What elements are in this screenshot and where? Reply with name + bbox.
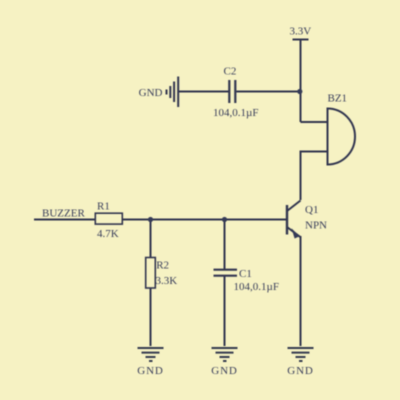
ground (C1) [212, 348, 238, 361]
junction node at 3.3V / C2 [297, 89, 302, 94]
wire R2 top [150, 220, 152, 258]
ground symbol rotated (left of C2) [167, 77, 179, 108]
svg-text:C2: C2 [224, 66, 237, 78]
svg-text:GND: GND [287, 365, 314, 377]
junction node R1 / R2 [148, 217, 153, 222]
resistor R1 body [95, 213, 122, 224]
wire emitter down [300, 236, 302, 346]
transistor Q1 emitter diagonal [287, 227, 300, 237]
wire BUZZER input [34, 219, 95, 221]
wire R2 bottom [150, 288, 152, 346]
wire C2 left segment [179, 91, 229, 93]
wire R1 to base [123, 219, 288, 221]
svg-text:NPN: NPN [305, 220, 327, 232]
wire C1 bottom [224, 277, 226, 347]
ground (Q1 emitter) [288, 348, 314, 361]
wire buzzer bottom lead to collector [301, 152, 328, 201]
wire buzzer top lead [301, 121, 328, 123]
svg-text:4.7K: 4.7K [97, 228, 119, 240]
junction node C1 / base wire [222, 217, 227, 222]
svg-text:104,0.1µF: 104,0.1µF [213, 107, 258, 119]
capacitor C1 plates [214, 270, 238, 276]
wire C2 right segment [236, 91, 300, 93]
svg-text:GND: GND [137, 365, 164, 377]
transistor Q1 base bar [286, 205, 288, 235]
resistor R2 body [146, 258, 156, 289]
svg-text:R1: R1 [97, 201, 110, 213]
wire 3.3V rail vertical [300, 40, 302, 123]
svg-text:Q1: Q1 [305, 204, 318, 216]
wire C1 top [224, 220, 226, 270]
svg-text:BZ1: BZ1 [328, 93, 348, 105]
power 3.3V bar [293, 39, 309, 41]
svg-text:R2: R2 [156, 260, 169, 272]
svg-text:104,0.1µF: 104,0.1µF [234, 281, 279, 293]
transistor Q1 emitter arrow [292, 228, 300, 238]
svg-text:C1: C1 [239, 268, 252, 280]
svg-text:3.3V: 3.3V [290, 26, 312, 38]
buzzer BZ1 symbol [328, 108, 356, 166]
transistor Q1 collector diagonal [287, 201, 301, 212]
svg-text:GND: GND [211, 365, 238, 377]
capacitor C2 plates [229, 80, 235, 103]
svg-text:3.3K: 3.3K [156, 275, 178, 287]
ground (R2) [138, 348, 164, 361]
svg-text:BUZZER: BUZZER [42, 208, 85, 220]
svg-text:GND: GND [139, 87, 163, 99]
